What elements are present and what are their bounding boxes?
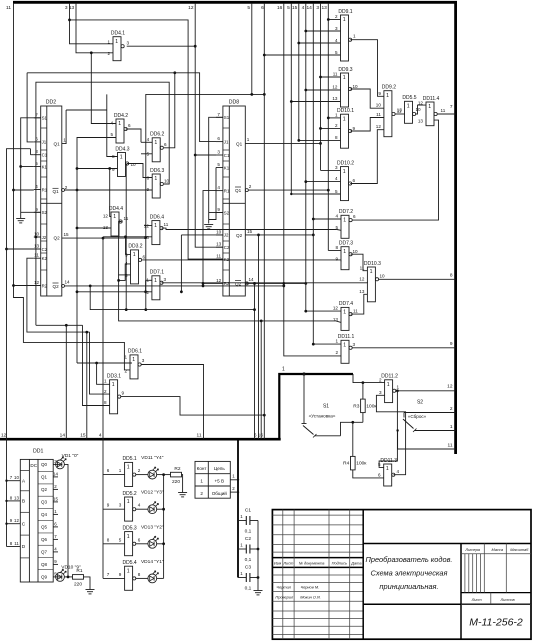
wire DD2 K2 staircase line B [27, 258, 90, 332]
svg-text:5: 5 [119, 537, 122, 542]
wire VD1 to collector [64, 464, 68, 577]
wire DD6.4 in13 from net4 [103, 236, 152, 238]
svg-text:3: 3 [142, 358, 145, 363]
svg-text:1: 1 [154, 140, 157, 146]
gate DD5.3 [123, 525, 137, 555]
svg-text:9: 9 [119, 572, 122, 577]
svg-text:1: 1 [115, 39, 118, 45]
wire DD4.2 in5 riser lower [76, 190, 78, 363]
svg-text:2: 2 [379, 378, 382, 383]
svg-text:S2: S2 [417, 400, 423, 406]
svg-text:13: 13 [103, 225, 109, 230]
svg-text:C1: C1 [224, 153, 230, 158]
wire DD8 J2 riser [180, 235, 182, 292]
wire DD3.1 in1 drop [97, 363, 110, 384]
svg-text:C1: C1 [245, 508, 251, 514]
svg-text:K2: K2 [42, 256, 48, 261]
capacitor C2 [238, 536, 258, 563]
wire capacitor common [257, 521, 259, 591]
svg-text:3: 3 [353, 342, 356, 347]
svg-text:DD4.4: DD4.4 [109, 206, 123, 212]
svg-text:2: 2 [200, 491, 203, 496]
svg-text:+5 В: +5 В [215, 479, 225, 484]
gate DD11.3 [380, 458, 397, 486]
svg-text:2: 2 [335, 14, 338, 19]
wire DD9.3 in11 [321, 76, 341, 78]
title block frame [272, 510, 531, 640]
DD5.3 pin labels [107, 537, 141, 542]
svg-text:8: 8 [107, 537, 110, 542]
wire DD7.2 in4 [313, 218, 341, 220]
DD2 pin 4 R1 [34, 184, 48, 192]
wire DD6.4 out to DD7.2 (long) [162, 228, 337, 229]
svg-text:15: 15 [292, 5, 298, 11]
DD2 pin 6 J1 [34, 136, 47, 144]
svg-text:3: 3 [335, 26, 338, 31]
wire DD8 Q2inv line [245, 282, 305, 284]
wire DD11.1 in1 [313, 343, 341, 345]
svg-text:D: D [22, 544, 26, 550]
wire DD9.1 in4 [299, 42, 341, 44]
gate DD3.1 [107, 374, 121, 414]
svg-text:14: 14 [248, 277, 254, 282]
svg-text:13: 13 [321, 5, 327, 11]
wire net 12 to DD8 C1 C2 [195, 3, 223, 247]
svg-text:DD6.4: DD6.4 [150, 214, 164, 220]
svg-text:13: 13 [14, 495, 19, 500]
wire DD6.1 out to bus 11 [141, 365, 203, 440]
svg-text:Q1: Q1 [236, 141, 243, 146]
svg-text:R2: R2 [42, 283, 48, 288]
wire DD3.2 out to DD7.3 (long) [142, 259, 341, 261]
svg-text:DD11.1: DD11.1 [338, 334, 355, 340]
wire DD8 Q2 bottom drop net 6 [258, 235, 260, 439]
svg-text:DD6.2: DD6.2 [150, 132, 164, 138]
wire Q2inv staircase [90, 286, 254, 310]
DD5.5 pin labels [397, 107, 421, 114]
svg-text:DD9.2: DD9.2 [382, 85, 396, 91]
svg-text:Проверил: Проверил [275, 594, 294, 599]
DD2 output Q1 pin 1 [54, 110, 67, 147]
svg-text:«Установка»: «Установка» [309, 414, 336, 419]
svg-text:10: 10 [34, 232, 40, 237]
svg-text:1: 1 [387, 382, 390, 388]
svg-text:9: 9 [335, 256, 338, 261]
wire DD10.2 in3 [321, 169, 341, 171]
svg-text:4: 4 [147, 137, 150, 142]
svg-text:6: 6 [138, 537, 141, 542]
svg-text:4: 4 [335, 38, 338, 43]
ground DD8 [204, 224, 213, 226]
DD8 pin 3 C1 [216, 150, 230, 158]
wire net 3 clock [70, 3, 114, 44]
wire net Q1 DD2 [66, 109, 107, 111]
svg-text:3: 3 [164, 277, 167, 282]
svg-text:B: B [22, 499, 25, 505]
DD7.2 pin labels [335, 214, 356, 230]
wire DD5.2 output [136, 508, 148, 510]
svg-text:5: 5 [287, 5, 290, 11]
wire J1 bridge line [27, 73, 216, 142]
svg-text:Чернов М.: Чернов М. [300, 585, 319, 590]
svg-text:15: 15 [80, 433, 86, 439]
wire DD2 C2 branch [7, 248, 41, 250]
wire DD5.1 LED out [157, 474, 164, 476]
wire net 13 clock [76, 3, 113, 53]
wire DD5.1 input [103, 474, 125, 476]
svg-text:Дата: Дата [350, 561, 362, 566]
wire DD4.4 inputs [77, 227, 111, 229]
svg-text:Изм: Изм [274, 561, 282, 566]
wire DD6.3 feedback to DD2 J2 [36, 82, 169, 325]
svg-text:12: 12 [376, 124, 382, 129]
svg-text:15: 15 [63, 232, 69, 237]
wire net 15 tap [298, 3, 300, 140]
svg-text:9: 9 [112, 167, 115, 172]
svg-text:11: 11 [353, 309, 358, 314]
svg-text:1: 1 [343, 249, 346, 255]
wire DD4.1 output to net 12 [127, 45, 196, 47]
cable bus bottom (pin 12) [0, 438, 281, 441]
wire DD9.1 in2 [328, 19, 340, 21]
wire DD11.4 out pin 7 [437, 113, 455, 115]
wire DD6.2 inputs [141, 141, 152, 143]
svg-text:R3: R3 [353, 403, 359, 409]
svg-text:C: C [22, 521, 26, 527]
wire net 15 bottom drop [86, 332, 88, 439]
svg-text:Общий: Общий [212, 490, 228, 496]
DD2 pin 5 K1 [34, 161, 48, 169]
wire DD4.3 in9 [77, 168, 118, 170]
svg-text:11: 11 [6, 5, 11, 11]
svg-text:2: 2 [65, 185, 68, 190]
svg-text:DD3.1: DD3.1 [107, 374, 121, 380]
svg-text:DD10.1: DD10.1 [337, 108, 354, 114]
wire DD10.1 in8 [299, 139, 341, 141]
gate DD9.1 [338, 9, 352, 61]
svg-text:6: 6 [353, 178, 356, 183]
wire S1 net lower [341, 422, 363, 436]
svg-text:5: 5 [335, 189, 338, 194]
wire net 5 tap [251, 3, 253, 94]
DD8 output Q1-inv pin 2 [235, 184, 252, 193]
svg-text:3: 3 [335, 165, 338, 170]
DD6.3 pin labels [147, 176, 170, 193]
wire DD6.4 in12 [144, 225, 152, 227]
DD8 pin 10 J2 [216, 229, 229, 237]
gate DD11.4 [423, 96, 440, 126]
LED VD14 [141, 559, 164, 583]
title block right section [461, 544, 531, 640]
svg-text:2: 2 [124, 369, 127, 374]
svg-text:12: 12 [188, 5, 194, 11]
svg-text:VD1 "0": VD1 "0" [62, 453, 79, 459]
svg-text:12: 12 [103, 214, 109, 219]
DD9.1 pin labels [335, 14, 356, 55]
svg-text:15: 15 [53, 497, 58, 502]
svg-text:принципиальная.: принципиальная. [379, 582, 438, 591]
svg-text:1: 1 [127, 568, 130, 574]
resistor R1 [73, 568, 84, 587]
svg-text:R1: R1 [42, 187, 48, 192]
wire net 3b tap [320, 3, 322, 170]
svg-text:Q5: Q5 [41, 525, 48, 530]
resistor R2 [171, 466, 182, 485]
wire DD3.1 in8 drop [83, 325, 110, 405]
wire DD10.2 out to DD9.2 in12 [350, 130, 384, 184]
svg-text:8: 8 [138, 572, 141, 577]
wire connector pin 1 [230, 479, 238, 481]
wire DD8 Q1inv to net 13b [248, 189, 328, 191]
svg-text:1: 1 [118, 121, 121, 127]
DD5.4 pin labels [107, 572, 141, 577]
svg-text:S1: S1 [323, 404, 329, 410]
svg-text:8: 8 [104, 400, 107, 405]
svg-text:5: 5 [247, 5, 250, 11]
svg-text:11: 11 [164, 222, 169, 227]
svg-text:DD6.1: DD6.1 [128, 349, 142, 355]
wire DD10.2 in4 [306, 181, 341, 183]
wire DD5.1 output [136, 474, 148, 476]
svg-text:8: 8 [335, 135, 338, 140]
svg-text:DD9.1: DD9.1 [338, 9, 352, 15]
DD5.2 pin labels [107, 503, 141, 508]
wire Q2inv riser net 16 top to DD11.1 in2 [284, 3, 341, 356]
svg-text:1: 1 [119, 468, 122, 473]
svg-text:1: 1 [124, 355, 127, 360]
svg-text:1: 1 [343, 218, 346, 224]
svg-text:2: 2 [335, 123, 338, 128]
svg-text:DD7.1: DD7.1 [150, 270, 164, 276]
gate DD10.3 [364, 261, 381, 302]
IC DD1 (decoder DC) [20, 449, 53, 583]
svg-text:Листов: Листов [500, 597, 515, 602]
svg-text:DD5.2: DD5.2 [123, 491, 137, 497]
wire DD3.1 in2 drop [90, 332, 110, 394]
svg-text:1: 1 [397, 385, 400, 390]
svg-text:6: 6 [378, 473, 381, 478]
svg-text:9: 9 [353, 126, 356, 131]
wire DD9.3 in13 [291, 101, 340, 103]
svg-text:R4: R4 [343, 461, 349, 467]
wire net 4 column [102, 238, 104, 578]
gate DD7.3 [339, 241, 353, 270]
connector table Конт/Цепь [195, 461, 230, 498]
DD4.2 pin labels [110, 121, 131, 138]
svg-text:1: 1 [133, 252, 136, 258]
DD2 output Q2 pin 15 [54, 232, 69, 241]
wire DD8 Q1 to net 3b [245, 142, 320, 144]
svg-text:K1: K1 [42, 164, 48, 169]
svg-text:12: 12 [332, 85, 338, 90]
wire DD5.2 input [103, 508, 125, 510]
wire net 16 bottom drop [260, 321, 262, 439]
DD1 output Q1 pin 14 [41, 472, 58, 480]
LED VD1 [56, 453, 79, 469]
svg-text:5: 5 [110, 132, 113, 137]
svg-text:1: 1 [343, 17, 346, 23]
svg-text:12: 12 [216, 278, 222, 283]
DD4.4 pin labels [103, 214, 129, 230]
capacitor C1 [238, 508, 258, 535]
wire DD3.2 in5 feed [118, 274, 130, 276]
svg-text:1: 1 [343, 310, 346, 316]
gate DD4.3 [115, 146, 129, 176]
DD8 pin 13 C2 [216, 242, 230, 250]
svg-text:DD5.5: DD5.5 [402, 95, 416, 101]
wire DD3.2 in4 feed [119, 264, 131, 281]
svg-text:10: 10 [380, 274, 386, 279]
wire DD8 C1 stub [195, 154, 216, 156]
wire net 14 bottom drop [65, 325, 67, 439]
svg-text:1: 1 [120, 155, 123, 161]
svg-text:K2: K2 [224, 257, 230, 262]
svg-text:10: 10 [131, 162, 137, 167]
wire DD7.4 in13 stub [336, 321, 341, 323]
svg-text:5: 5 [217, 162, 220, 167]
DD2 pin 9 S2 [34, 207, 48, 215]
svg-text:14: 14 [53, 472, 58, 477]
wire DD4.3 in8 stub [107, 156, 118, 158]
wire DD2 S2 branch [21, 211, 41, 213]
svg-text:1: 1 [335, 113, 338, 118]
svg-text:9: 9 [107, 503, 110, 508]
wire net 11 to DD2 R1 [14, 189, 34, 191]
svg-text:11: 11 [376, 112, 381, 117]
resistor R3 [353, 399, 377, 413]
svg-text:11: 11 [448, 443, 453, 449]
switch S1 Установка [302, 374, 341, 438]
svg-text:6: 6 [143, 255, 146, 260]
svg-text:DD4.1: DD4.1 [111, 31, 125, 37]
wire DD7.4 in12 [306, 310, 341, 312]
gate DD7.2 [339, 209, 353, 238]
svg-text:1: 1 [282, 367, 285, 373]
svg-text:№ документа: № документа [299, 561, 326, 566]
svg-text:16: 16 [277, 5, 283, 11]
wire DD9.1 out to DD9.2 in9 [350, 40, 384, 97]
svg-text:2: 2 [450, 406, 453, 412]
gate DD9.3 [338, 67, 352, 107]
DD9.2 pin labels [376, 91, 403, 129]
wire DD9.3 out to DD9.2 in10 [350, 89, 384, 108]
wire DD11.1 out pin 9 [352, 347, 455, 349]
wire DD6.2 feedback to DD2 J1 [164, 73, 175, 148]
svg-text:Схема электрическая: Схема электрическая [371, 569, 448, 578]
svg-text:12: 12 [447, 384, 453, 390]
svg-text:3: 3 [119, 503, 122, 508]
svg-text:DD5.3: DD5.3 [123, 525, 137, 531]
svg-text:0,1: 0,1 [245, 529, 252, 535]
wire DD5.5 out to DD11.4 in12 [416, 105, 426, 114]
svg-text:DD10.2: DD10.2 [337, 160, 354, 166]
svg-text:9: 9 [122, 391, 125, 396]
svg-text:12: 12 [359, 277, 365, 282]
svg-text:Конт: Конт [197, 466, 208, 471]
gate DD7.4 [339, 301, 353, 330]
wire DD7.1 out to DD10.3 (long) [162, 282, 368, 284]
svg-text:10: 10 [216, 229, 222, 234]
svg-text:Q8: Q8 [41, 562, 48, 567]
svg-text:Подпись: Подпись [332, 561, 347, 566]
wire R3 bottom [362, 413, 364, 423]
svg-text:C2: C2 [42, 247, 48, 252]
svg-text:11: 11 [441, 108, 446, 113]
svg-text:Масштаб: Масштаб [510, 547, 529, 552]
svg-text:DD4.3: DD4.3 [115, 146, 129, 152]
wire staircase line A [36, 324, 83, 326]
gate DD7.1 [150, 270, 164, 300]
DD2 pin 10 J2 [34, 232, 47, 240]
DD6.2 pin labels [147, 137, 167, 156]
svg-text:VD11 "Y4": VD11 "Y4" [141, 455, 164, 461]
DD6.4 pin labels [144, 222, 169, 240]
DD2 pin 11 K2 [34, 253, 48, 261]
gate DD6.4 [150, 214, 164, 244]
DD8 pin 5 K1 [216, 162, 230, 170]
wire LED collector DD5 [163, 475, 165, 579]
DD1 output Q8 pin 9 [41, 559, 58, 567]
gate DD11.1 [338, 334, 355, 363]
svg-text:9: 9 [450, 341, 453, 347]
wire DD9.2 out to DD5.5 [395, 113, 404, 115]
svg-text:6: 6 [217, 136, 220, 141]
svg-text:1: 1 [132, 357, 135, 363]
DD11.4 pin labels [418, 101, 446, 124]
svg-text:3: 3 [316, 5, 319, 11]
wire DD2 S1 ground net [21, 118, 41, 218]
wire DD4.3 out riser [125, 164, 128, 310]
svg-text:14: 14 [60, 433, 66, 439]
gate DD5.2 [123, 491, 137, 521]
svg-text:9: 9 [217, 207, 220, 212]
svg-text:6: 6 [128, 123, 131, 128]
title block document number [469, 617, 523, 629]
ground R1 [86, 589, 95, 591]
title block left grid [272, 510, 363, 640]
DD1 input B [5, 495, 25, 504]
svg-text:1: 1 [407, 104, 410, 110]
wire DD2 C1 stub [31, 154, 34, 156]
wire DD4.2 in5 riser [77, 138, 116, 191]
svg-text:S2: S2 [224, 210, 230, 215]
wire DD11.2 in2 from +5 [353, 374, 385, 383]
svg-text:DD7.3: DD7.3 [339, 241, 353, 247]
DD8 output Q1 pin 1 [236, 137, 250, 146]
DD8 pin 4 R1 [216, 185, 230, 193]
wire DD8 J2 line [181, 234, 223, 236]
svg-text:1: 1 [247, 137, 250, 142]
wire net 11 (reset) [14, 3, 131, 370]
svg-text:Q3: Q3 [41, 500, 48, 505]
DD2 output Q1-inv pin 2 [53, 185, 68, 194]
svg-text:S2: S2 [42, 210, 48, 215]
svg-text:DD10.3: DD10.3 [364, 261, 381, 267]
svg-text:VD12 "Y3": VD12 "Y3" [141, 490, 164, 496]
svg-text:Лист: Лист [282, 561, 294, 566]
svg-text:DD2: DD2 [46, 100, 56, 106]
gate DD10.2 [337, 160, 354, 200]
wire DD10.1 out to DD9.2 in11 [350, 118, 384, 132]
svg-text:Q7: Q7 [41, 550, 48, 555]
svg-text:11: 11 [360, 265, 365, 270]
DD4.1 pin labels [107, 40, 129, 56]
svg-text:S1: S1 [224, 115, 230, 120]
svg-text:4: 4 [99, 433, 102, 439]
svg-text:11: 11 [34, 253, 39, 258]
wire DD3.2 inputs [126, 237, 131, 255]
svg-text:DD1: DD1 [33, 449, 43, 455]
